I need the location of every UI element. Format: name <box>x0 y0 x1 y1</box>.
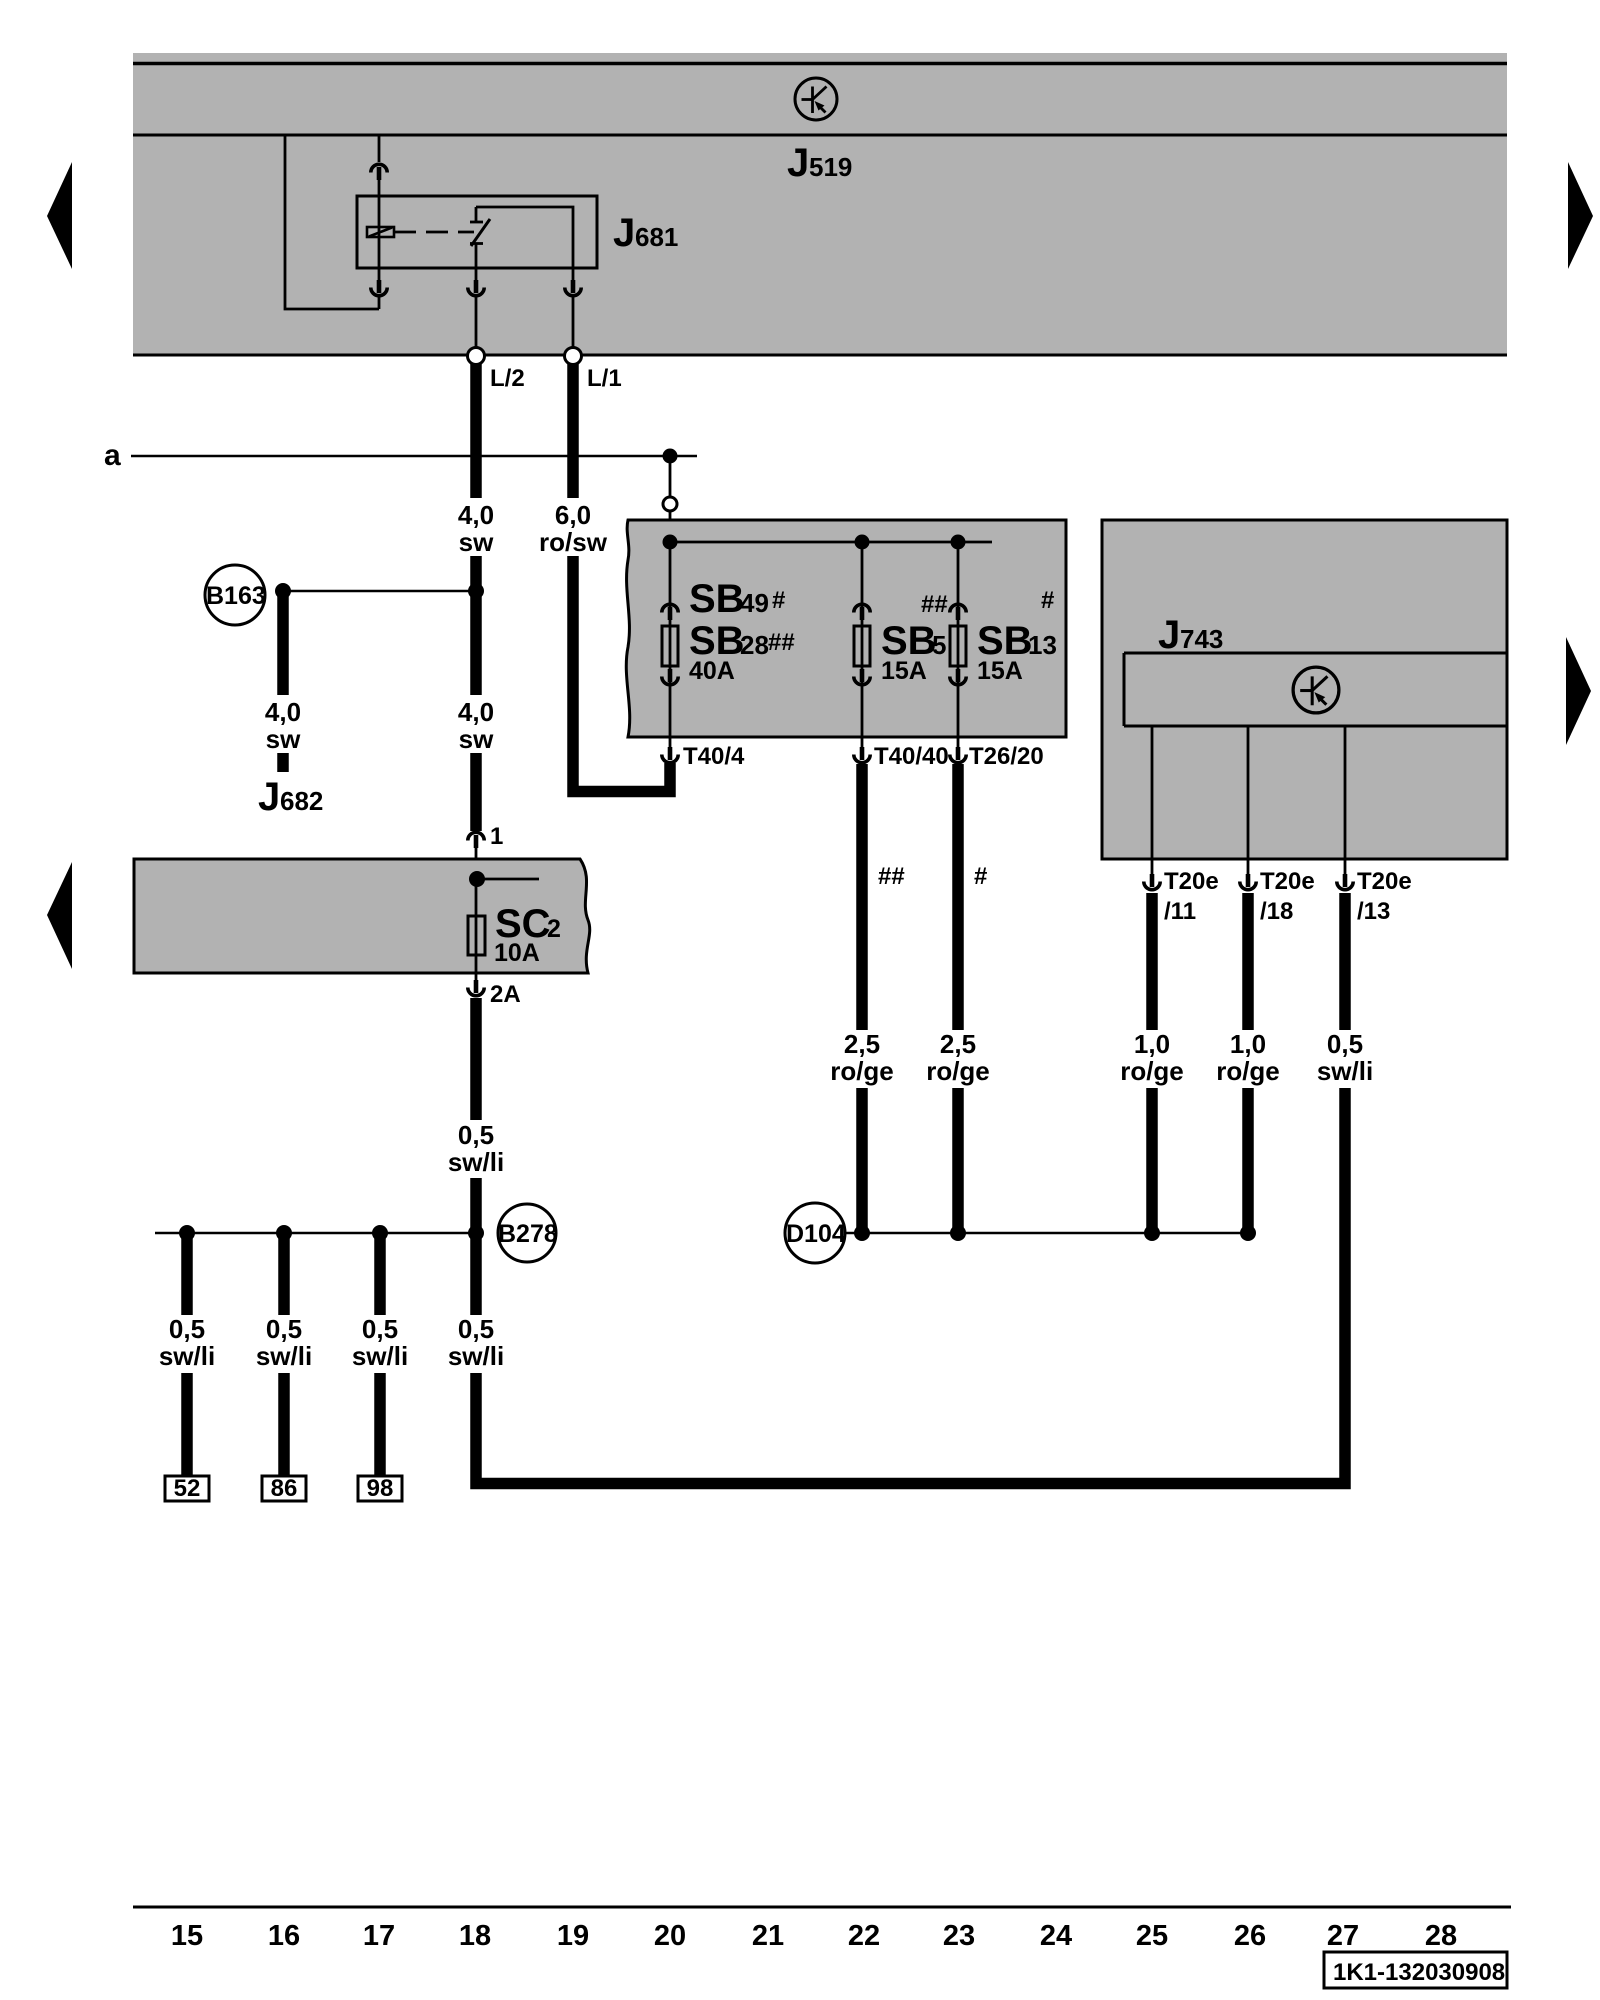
svg-text:/13: /13 <box>1357 898 1390 925</box>
stub into SC2 box <box>475 846 478 880</box>
svg-text:##: ## <box>921 591 948 618</box>
svg-text:0,5: 0,5 <box>362 1314 398 1344</box>
junction dot on line a <box>663 449 678 464</box>
earth bus junction dot main <box>468 1225 484 1241</box>
svg-text:#: # <box>772 587 785 614</box>
bus junction dot fuse SB49/28 <box>663 535 678 550</box>
fuse SB13 wire <box>957 542 960 737</box>
relay coil pin line through box <box>378 196 381 268</box>
page edge arrow left top <box>47 162 72 269</box>
fuse SB49/SB28 body <box>662 626 678 666</box>
bus junction dot fuse SB5 <box>855 535 870 550</box>
relay actuation dashed link <box>394 231 474 234</box>
fuse SB5 bottom connector <box>854 669 870 685</box>
svg-text:T40/40: T40/40 <box>874 743 949 770</box>
exit terminal ring L/2 <box>468 348 485 365</box>
D104 bus dot 3 <box>1144 1225 1160 1241</box>
page edge arrow left middle <box>47 862 72 969</box>
svg-text:T40/4: T40/4 <box>683 743 745 770</box>
svg-text:sw: sw <box>266 724 301 754</box>
relay coil symbol <box>367 227 394 237</box>
pin stubs to bar exits <box>475 294 478 348</box>
svg-text:98: 98 <box>367 1475 394 1502</box>
svg-text:0,5: 0,5 <box>458 1120 494 1150</box>
wire from rail to relay coil pin <box>378 135 381 162</box>
svg-text:a: a <box>104 439 121 472</box>
fuse SC2 body <box>468 916 485 955</box>
thick wire 4,0 sw to J682 <box>277 591 289 772</box>
svg-text:49: 49 <box>740 588 769 618</box>
T20e/13 pin connector <box>1337 874 1353 890</box>
svg-text:2,5: 2,5 <box>844 1029 880 1059</box>
svg-text:17: 17 <box>363 1920 395 1952</box>
bus junction dot fuse SB13 <box>951 535 966 550</box>
T40/40 pin connector <box>854 747 870 763</box>
wire stub ring to SB box <box>669 511 672 542</box>
svg-text:1K1-132030908: 1K1-132030908 <box>1333 1959 1505 1986</box>
svg-text:16: 16 <box>268 1920 300 1952</box>
SC2 internal stub line <box>477 878 539 881</box>
svg-text:40A: 40A <box>689 657 735 685</box>
svg-text:86: 86 <box>271 1475 298 1502</box>
SC2 junction dot <box>469 871 485 887</box>
terminal box 86 <box>262 1476 306 1501</box>
svg-text:2A: 2A <box>490 981 521 1008</box>
K distribution symbol in J519 <box>795 78 837 120</box>
bottom track line <box>133 1906 1511 1909</box>
svg-text:27: 27 <box>1327 1920 1359 1952</box>
thick wire 0,5 sw/li to terminal 98 <box>374 1233 386 1476</box>
D104 bus dot 4 <box>1240 1225 1256 1241</box>
node line a <box>131 455 697 458</box>
T40/40 pin stub below box <box>861 737 864 748</box>
svg-text:18: 18 <box>459 1920 491 1952</box>
svg-text:22: 22 <box>848 1920 880 1952</box>
fuse SB49/SB28 bottom connector <box>662 669 678 685</box>
svg-text:13: 13 <box>1028 630 1057 660</box>
svg-text:21: 21 <box>752 1920 784 1952</box>
svg-text:2: 2 <box>547 915 561 943</box>
fuse SB13 top connector <box>950 604 966 620</box>
earth bus dot 52 <box>179 1225 195 1241</box>
svg-text:26: 26 <box>1234 1920 1266 1952</box>
junction dot on L/2 wire <box>468 583 484 599</box>
power steering control unit J743 body <box>1102 520 1507 859</box>
svg-text:sw: sw <box>459 724 494 754</box>
svg-text:25: 25 <box>1136 1920 1168 1952</box>
svg-text:##: ## <box>878 863 905 890</box>
svg-text:/18: /18 <box>1260 898 1293 925</box>
svg-text:15A: 15A <box>977 657 1023 685</box>
B163 junction dot <box>275 583 291 599</box>
svg-text:##: ## <box>768 629 795 656</box>
svg-text:519: 519 <box>809 152 852 182</box>
svg-text:ro/ge: ro/ge <box>1120 1056 1184 1086</box>
earth point B163 circle <box>205 565 265 625</box>
fuse SB5 top connector <box>854 604 870 620</box>
svg-text:T20e: T20e <box>1357 868 1412 895</box>
wire stub from line a to connector ring <box>669 456 672 497</box>
fuse SB49/SB28 wire <box>669 542 672 737</box>
T20e/11 pin connector <box>1144 874 1160 890</box>
svg-text:19: 19 <box>557 1920 589 1952</box>
thick wire L/1 6,0 ro/sw down and over to T40/4 <box>573 364 670 792</box>
svg-text:4,0: 4,0 <box>265 697 301 727</box>
onboard supply control unit J519 body <box>133 53 1507 355</box>
connection D104 circle <box>785 1203 845 1263</box>
svg-text:10A: 10A <box>494 939 540 967</box>
svg-text:24: 24 <box>1040 1920 1072 1952</box>
svg-text:J: J <box>1158 613 1180 657</box>
svg-text:0,5: 0,5 <box>169 1314 205 1344</box>
diagram reference box <box>1324 1952 1507 1988</box>
svg-text:20: 20 <box>654 1920 686 1952</box>
thick wire 1,0 ro/ge T20e/11 <box>1146 893 1158 1233</box>
svg-text:0,5: 0,5 <box>1327 1029 1363 1059</box>
T26/20 pin stub below box <box>957 737 960 748</box>
svg-text:682: 682 <box>280 786 323 816</box>
svg-text:6,0: 6,0 <box>555 500 591 530</box>
relay J681 outline box <box>357 196 597 268</box>
J743 pin wire T20e/11 <box>1151 726 1154 876</box>
svg-text:15A: 15A <box>881 657 927 685</box>
T40/4 pin stub below box <box>669 737 672 748</box>
J519 bottom border line <box>133 354 1507 357</box>
svg-text:52: 52 <box>174 1475 201 1502</box>
thick wire 0,5 sw/li to terminal 86 <box>278 1233 290 1476</box>
relay J681 coil top pin connector <box>371 164 387 180</box>
svg-text:L/2: L/2 <box>490 365 525 392</box>
svg-text:T26/20: T26/20 <box>969 743 1044 770</box>
fuse SB13 body <box>950 626 966 666</box>
D104 bus line <box>845 1232 1253 1235</box>
fuse SB5 body <box>854 626 870 666</box>
pin 1 connector above SC2 <box>468 832 484 848</box>
svg-text:ro/ge: ro/ge <box>1216 1056 1280 1086</box>
pin stub below relay left pin <box>378 294 381 309</box>
terminal box 98 <box>358 1476 402 1501</box>
J743 pin wire T20e/18 <box>1247 726 1250 876</box>
thick wire L/2 4,0 sw <box>470 364 482 831</box>
thick wire 2,5 ro/ge from T26/20 <box>952 764 964 1233</box>
earth bus dot 86 <box>276 1225 292 1241</box>
J743 inner connector strip <box>1124 653 1507 726</box>
thick wire 0,5 sw/li to terminal 52 <box>181 1233 193 1476</box>
svg-text:sw/li: sw/li <box>352 1341 408 1371</box>
D104 bus dot 2 <box>950 1225 966 1241</box>
earth point B278 circle <box>498 1204 556 1262</box>
svg-text:sw/li: sw/li <box>448 1147 504 1177</box>
svg-text:23: 23 <box>943 1920 975 1952</box>
svg-text:sw/li: sw/li <box>448 1341 504 1371</box>
wire from rail down-left of relay <box>285 135 379 309</box>
2A pin stub below SC2 <box>475 973 478 981</box>
fuse carrier box (SB fuses) <box>626 520 1066 737</box>
relay bottom pin connectors <box>378 268 381 281</box>
relay switch fixed contact <box>475 207 478 222</box>
T26/20 pin connector <box>950 747 966 763</box>
svg-text:28: 28 <box>1425 1920 1457 1952</box>
svg-text:/11: /11 <box>1164 898 1196 925</box>
svg-text:2,5: 2,5 <box>940 1029 976 1059</box>
track numbers 15-28 <box>171 1920 1457 1952</box>
T20e/18 pin connector <box>1240 874 1256 890</box>
svg-text:sw: sw <box>459 527 494 557</box>
svg-text:0,5: 0,5 <box>266 1314 302 1344</box>
SB box internal bus <box>670 541 992 544</box>
svg-text:15: 15 <box>171 1920 203 1952</box>
relay inner feed path <box>476 207 573 268</box>
svg-text:1,0: 1,0 <box>1134 1029 1170 1059</box>
K distribution symbol in J743 <box>1293 667 1339 713</box>
svg-text:B163: B163 <box>206 582 266 610</box>
svg-text:743: 743 <box>1180 624 1223 654</box>
page edge arrow right top <box>1568 162 1593 269</box>
T40/4 pin connector <box>662 747 678 763</box>
svg-text:T20e: T20e <box>1164 868 1219 895</box>
2A pin connector <box>468 980 484 996</box>
D104 bus dot 1 <box>854 1225 870 1241</box>
relay switch blade <box>471 219 490 246</box>
svg-text:J: J <box>613 211 635 255</box>
svg-text:sw/li: sw/li <box>1317 1056 1373 1086</box>
svg-text:T20e: T20e <box>1260 868 1315 895</box>
fuse SB13 bottom connector <box>950 669 966 685</box>
svg-text:L/1: L/1 <box>587 365 622 392</box>
svg-text:ro/sw: ro/sw <box>539 527 608 557</box>
svg-text:ro/ge: ro/ge <box>830 1056 894 1086</box>
thick wire 0,5 sw/li T20e/13 down to bottom rail <box>476 893 1345 1484</box>
fuse holder box SC2 <box>134 859 590 973</box>
svg-text:28: 28 <box>740 630 769 660</box>
svg-text:681: 681 <box>635 222 678 252</box>
J519 inner rail line <box>133 134 1507 137</box>
fuse SB5 wire <box>861 542 864 737</box>
J743 pin wire T20e/13 <box>1344 726 1347 876</box>
connector ring above SB box <box>663 497 677 511</box>
earth bus line left <box>155 1232 476 1235</box>
svg-text:J: J <box>787 141 809 185</box>
svg-text:sw/li: sw/li <box>159 1341 215 1371</box>
svg-text:sw/li: sw/li <box>256 1341 312 1371</box>
svg-text:1,0: 1,0 <box>1230 1029 1266 1059</box>
svg-text:4,0: 4,0 <box>458 500 494 530</box>
svg-text:#: # <box>1041 587 1054 614</box>
SC2 fuse wire <box>475 879 478 973</box>
wire label 4,0 sw (L/2) <box>159 500 1373 1371</box>
terminal box 52 <box>165 1476 209 1501</box>
svg-text:4,0: 4,0 <box>458 697 494 727</box>
svg-text:#: # <box>974 863 987 890</box>
svg-text:B278: B278 <box>498 1220 558 1248</box>
white backing for wire labels <box>155 498 1377 1373</box>
thick wire 2,5 ro/ge from T40/40 <box>856 764 868 1233</box>
earth bus dot 98 <box>372 1225 388 1241</box>
J519 top border line <box>133 62 1507 66</box>
exit terminal ring L/1 <box>565 348 582 365</box>
svg-text:D104: D104 <box>786 1220 846 1248</box>
thick wire 1,0 ro/ge T20e/18 <box>1242 893 1254 1233</box>
page edge arrow right middle <box>1566 637 1591 745</box>
svg-text:1: 1 <box>490 823 503 850</box>
thin link B163 to L/2 wire <box>283 590 476 593</box>
svg-text:5: 5 <box>932 630 946 660</box>
svg-text:ro/ge: ro/ge <box>926 1056 990 1086</box>
svg-text:J: J <box>258 775 280 819</box>
svg-text:SB: SB <box>689 577 745 621</box>
svg-text:0,5: 0,5 <box>458 1314 494 1344</box>
fuse SB49/SB28 top connector <box>662 604 678 620</box>
